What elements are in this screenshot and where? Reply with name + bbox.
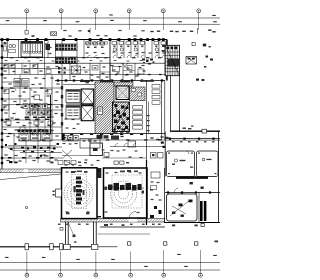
- site mark circle: [25, 206, 27, 208]
- small box and arrow marks y43: [192, 43, 195, 46]
- linac left pier: [56, 189, 62, 197]
- corridor between linac rooms marks: [98, 170, 102, 171]
- right vertical wall x165.2: [164, 132, 166, 177]
- label 18 mark: [73, 235, 76, 238]
- right corridor wall x179.5: [179, 76, 181, 131]
- pipe lines machinery room: [8, 145, 56, 147]
- machinery pump boxes y129-142: [19, 130, 29, 141]
- black dot label 18.30: [40, 155, 42, 157]
- linac right inner marks: [106, 172, 109, 173]
- right bottom wall marks: [172, 225, 175, 227]
- grid line stub bottom 4: [130, 252, 132, 274]
- grid line stub bottom 1: [26, 252, 28, 274]
- machine room label box A: [66, 90, 80, 103]
- pier left: [65, 222, 67, 245]
- escalator striped block: [165, 45, 180, 75]
- toilet circles right top rooms: [113, 48, 116, 51]
- label boxes pair left: [14, 79, 21, 87]
- mid rooms top partitions: [61, 40, 63, 81]
- grid bubble bottom 5: [162, 273, 166, 277]
- core hatched block right: [130, 87, 146, 101]
- corridor mid specks: [5, 60, 8, 61]
- bottom dimension line lower: [0, 269, 220, 271]
- right corridor wall x170: [169, 45, 171, 131]
- dark wall segment x50.5: [50, 95, 52, 134]
- left block lower room marks: [4, 154, 7, 155]
- black blobs x161-165: [161, 142, 164, 144]
- linac left dashed circles: [74, 189, 83, 198]
- left room fixtures: [4, 42, 7, 45]
- grid dimension line lower: [0, 23, 220, 25]
- machine room label box B: [66, 106, 80, 120]
- marks near x170 y78: [196, 79, 199, 81]
- grid line stub top 2: [60, 13, 62, 30]
- marks below room A: [190, 167, 193, 168]
- escalator rungs: [166, 51, 180, 53]
- left exterior wall: [1, 40, 3, 171]
- grid bubble top 3: [94, 9, 98, 13]
- corridor vertical walls x146-148: [146, 81, 148, 169]
- right wall y192.5: [165, 192, 220, 194]
- locker room striped A: [56, 44, 78, 51]
- grid line stub top 3: [95, 13, 97, 30]
- dash row below bottom wall: [58, 224, 61, 225]
- grid bubble bottom 4: [129, 273, 133, 277]
- elevator shaft X2: [81, 106, 94, 121]
- hollow column at right wall: [202, 129, 207, 133]
- bottom retaining wall: [0, 246, 98, 248]
- grid line stub top 4: [128, 13, 130, 30]
- bottom dimension line upper: [0, 262, 220, 264]
- grid bubble top 1: [25, 9, 29, 13]
- mid rooms fixtures: [58, 67, 61, 70]
- dimension text marks top: [6, 20, 10, 21]
- grid line stub bottom 2: [60, 252, 62, 274]
- room B interior pump icons: [202, 158, 205, 161]
- toilet room with stalls: [21, 42, 43, 58]
- mid lower boxes trio: [63, 136, 68, 142]
- right room rounded B: [197, 151, 219, 177]
- boxes above left linac room: [58, 161, 63, 165]
- linac left inner marks: [66, 171, 69, 172]
- grid bubble top 6: [197, 9, 201, 13]
- left block small boxes: [4, 65, 8, 69]
- bottom middle small marks: [104, 224, 108, 226]
- grid line stub top 6: [198, 13, 200, 30]
- grid bubble top 5: [161, 9, 165, 13]
- fixtures right top rooms: [112, 42, 117, 45]
- grid dimension line upper: [0, 17, 220, 19]
- bottom-middle hatched wall: [61, 219, 165, 223]
- dark cluster under corridor x142-154: [142, 59, 145, 61]
- left block text specks: [3, 65, 6, 66]
- grid bubble top 2: [59, 9, 63, 13]
- gray band between label boxes: [66, 103, 94, 105]
- linac right machine cluster: [108, 185, 113, 191]
- mid band wall y80.5: [55, 80, 165, 82]
- pier left footing: [64, 244, 71, 249]
- core top dark wall segments: [80, 80, 90, 82]
- room A interior pump icons: [174, 159, 177, 162]
- linac divider wall thick: [146, 160, 148, 225]
- pier right: [93, 222, 95, 245]
- core hatched shear wall main dense: [95, 82, 114, 134]
- top wall columns: [1, 38, 4, 41]
- small fixtures top rooms mid: [86, 42, 91, 45]
- grid line stub top 5: [162, 13, 164, 30]
- mid bottom hollow marks y228: [60, 228, 63, 231]
- vents above top wall: [51, 32, 57, 36]
- left exterior label marks y161: [9, 161, 13, 163]
- right corridor marks y182-190: [190, 182, 193, 184]
- pier leader line and x mark: [68, 222, 74, 236]
- core inner line y84.5: [63, 84, 110, 86]
- hollow footing squares: [128, 242, 131, 245]
- grid bubble bottom 1: [25, 273, 29, 277]
- grid line stub bottom 5: [163, 250, 165, 273]
- equipment cluster dark dashes: [25, 117, 29, 119]
- corridor marks x146-150: [147, 115, 150, 116]
- double door arcs below corridor: [121, 63, 126, 67]
- dimension text marks bottom: [5, 257, 9, 258]
- dark line segments y119: [5, 119, 10, 120]
- right of linac room marks: [151, 172, 160, 178]
- thick black band: [176, 176, 208, 179]
- dark dashes along y75 right part: [115, 74, 118, 75]
- mid strip y148-168 extra marks: [63, 143, 66, 144]
- right top small boxes x152: [152, 85, 160, 89]
- dark right wall x166.8: [166, 40, 168, 81]
- elevator shaft X3: [116, 86, 129, 100]
- marks right of crane: [206, 56, 209, 58]
- linac room right walls: [104, 168, 148, 218]
- core outer walls: [61, 81, 63, 134]
- door arcs mid corridor: [115, 144, 118, 147]
- corridor wall y57.5: [0, 57, 110, 59]
- door swing diagonals: [62, 150, 72, 159]
- site boundary sloped line: [0, 174, 62, 180]
- top band dimension strings: [63, 30, 66, 31]
- door arcs corridor top: [88, 55, 91, 58]
- right thick wall line at y131: [170, 130, 220, 132]
- black dash row y129-132: [18, 129, 21, 132]
- linac left machine cluster: [76, 177, 81, 180]
- grid bubble bottom 2: [59, 273, 63, 277]
- left block door arcs: [13, 88, 16, 91]
- small rooms right of core: [133, 106, 143, 110]
- label box area below marks: [65, 118, 68, 119]
- grid line stub bottom 6: [199, 250, 201, 273]
- white box inside hatch: [98, 107, 103, 115]
- marks above right linac room: [114, 161, 118, 164]
- bottom-middle wall line: [100, 226, 165, 228]
- corridor wall dark chunk: [97, 168, 101, 178]
- corridor wall y63: [0, 62, 167, 64]
- linac right dashed circles: [119, 189, 129, 199]
- grid bubble bottom 3: [94, 273, 98, 277]
- core hatched strip top: [114, 82, 133, 86]
- bottom wall hollow markers: [25, 244, 28, 250]
- left bottom exterior hatched wall: [0, 169, 62, 173]
- marks below stairwell: [114, 132, 117, 133]
- machinery specks dense: [21, 147, 24, 149]
- marks near right wall top: [162, 45, 165, 47]
- right room rounded A: [167, 151, 195, 177]
- bottom thin line: [98, 233, 151, 235]
- grid bubble bottom 6: [199, 273, 203, 277]
- elevator shaft X1: [81, 89, 94, 105]
- pier right footing: [91, 244, 98, 249]
- room partitions top band: [7, 40, 9, 58]
- toilet pair circles room: [9, 44, 12, 47]
- right exterior wall: [218, 131, 220, 223]
- left block vertical partitions: [8, 63, 10, 74]
- left block door dashes: [10, 87, 14, 88]
- dark bordered room: [90, 143, 103, 156]
- corridor door dashes y57-63: [10, 57, 14, 58]
- mid lower room with box: [80, 139, 100, 149]
- corridor right pair x161-165: [161, 81, 163, 141]
- crane symbol box: [186, 57, 197, 65]
- stairwell dark cluster: [113, 102, 130, 132]
- main vertical wall x110: [109, 40, 111, 81]
- right room corner marks A: [168, 153, 170, 154]
- grid line stub bottom 3: [95, 252, 97, 274]
- grid line stub top 1: [26, 13, 28, 30]
- corridor lines y146.5: [110, 146, 165, 148]
- top right text marks: [170, 31, 173, 32]
- right rooms door marks: [172, 141, 175, 142]
- dark bar below core left: [62, 134, 65, 141]
- linac room left walls: [62, 168, 98, 219]
- marks above y131 wall: [183, 128, 186, 129]
- right room rounded C: [167, 194, 198, 221]
- locker room striped B: [56, 57, 78, 64]
- corridor door dashes y134: [70, 134, 73, 135]
- escalator dark blob: [168, 59, 180, 67]
- core left wall dark segments: [61, 86, 63, 90]
- sink row x85-108: [86, 42, 89, 44]
- top exterior wall: [0, 39, 167, 41]
- mid rooms small boxes: [92, 66, 98, 71]
- right mid wall y138.5: [165, 138, 220, 140]
- door dashes on y140 wall: [68, 139, 72, 140]
- extra top band specks: [86, 52, 89, 53]
- equipment cluster x22-48 y96-118: [23, 104, 28, 109]
- right room C pumps: [179, 204, 183, 207]
- mid y135-140 dark rects right: [97, 135, 103, 139]
- grid bubble top 4: [127, 9, 131, 13]
- elevator shafts divider dark band: [81, 103, 94, 105]
- left block horizontal partitions: [0, 68, 62, 70]
- mid rooms partial hlines: [62, 69, 90, 71]
- stair dark bars: [200, 201, 203, 221]
- dark fixture block x46: [46, 44, 51, 50]
- right rooms corridor line y140.2: [165, 139, 220, 141]
- bottom right exterior wall: [164, 222, 220, 224]
- boxes x150-163 y152-160: [151, 153, 157, 159]
